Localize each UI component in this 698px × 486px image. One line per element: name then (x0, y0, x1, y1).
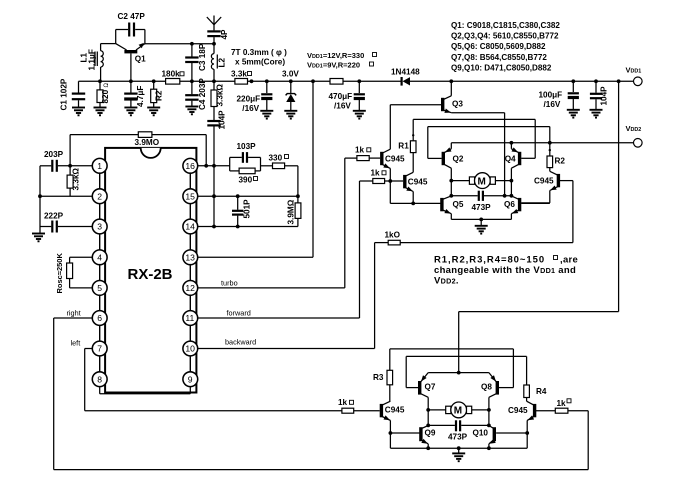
svg-text:1k: 1k (557, 399, 567, 408)
svg-text:1kO: 1kO (385, 231, 401, 240)
transistor Q1 (116, 43, 146, 81)
svg-text:L2: L2 (218, 57, 227, 67)
svg-text:3: 3 (97, 222, 102, 232)
capacitor 104P (under 3.3k) (207, 110, 226, 227)
resistor R3 (373, 370, 393, 401)
svg-text:Q1: Q1 (135, 55, 146, 64)
svg-text:501P: 501P (243, 199, 252, 219)
transistor Q9 (389, 426, 436, 449)
wire: Q3 emitter feed down centre of bridge (451, 112, 504, 114)
ground below 470uF (353, 111, 366, 119)
svg-text:R1,R2,R3,R4=80~150: R1,R2,R3,R4=80~150 (434, 255, 545, 266)
wire pin11 forward (198, 181, 360, 318)
transistor Q2 (443, 143, 464, 196)
capacitor 470uF/16V (329, 79, 365, 110)
wire: R1 top cross-couple to Q4 base (413, 118, 535, 120)
ground (lower bridge) (452, 453, 465, 461)
capacitor 104P (VDD1) (590, 79, 609, 109)
wire: VDD1 rail from diode to terminal (410, 80, 634, 82)
motor M (upper) (449, 173, 513, 189)
junction to pin13 drop (311, 79, 315, 83)
svg-text:103P: 103P (237, 142, 257, 151)
svg-text:Rosc≈250K: Rosc≈250K (55, 253, 64, 294)
svg-text:M: M (454, 406, 462, 417)
svg-text:R4: R4 (536, 387, 547, 396)
svg-text:1N4148: 1N4148 (391, 68, 420, 77)
capacitor 501P (pin15-pin14) (232, 196, 252, 226)
svg-text:x 5mm(Core): x 5mm(Core) (235, 58, 285, 67)
transistor C945 (first driver) (382, 105, 405, 204)
svg-text:C3 18P: C3 18P (198, 43, 207, 71)
svg-text:Ω: Ω (104, 83, 110, 88)
resistor 3.3k (pin1-pin2) (67, 164, 80, 196)
transistor Q5 (390, 196, 464, 220)
resistor 3.9M (pin15-pin14) (287, 199, 301, 226)
ground below 820 (94, 108, 107, 116)
wire: Q1 emitter to antenna node y=43.8 (145, 43, 214, 45)
svg-text:C945: C945 (385, 154, 405, 163)
svg-text:Q3: Q3 (452, 99, 463, 108)
svg-text:180k: 180k (162, 70, 181, 79)
inductor L2 (211, 44, 226, 82)
wire pin8 to pin9 (100, 387, 191, 394)
svg-text:Q10: Q10 (473, 429, 489, 438)
motor M (lower) (426, 402, 490, 418)
svg-text:222P: 222P (44, 212, 64, 221)
capacitor 100uF/16V (539, 79, 579, 109)
svg-text:11: 11 (185, 313, 194, 323)
transistor C945 (right driver) (521, 168, 573, 243)
svg-text:right: right (67, 309, 81, 318)
zener diode 3.0V (286, 79, 297, 110)
svg-text:/16V: /16V (334, 102, 351, 111)
wire: main left bias rail y=81.3 from C1 to 180k (79, 80, 166, 82)
svg-text:left: left (71, 339, 81, 348)
resistor 1kO (backward drive) (375, 231, 573, 245)
wire pin2 (40, 195, 92, 197)
svg-text:473P: 473P (472, 203, 492, 212)
svg-text:Q7,Q8: B564,C8550,B772: Q7,Q8: B564,C8550,B772 (451, 53, 547, 62)
svg-text:C945: C945 (408, 177, 428, 186)
svg-text:RX-2B: RX-2B (128, 266, 173, 283)
resistor Rosc 250K (pin4-pin5) (55, 253, 92, 294)
wire: cross-couple line Q7 base / R4 (406, 356, 526, 387)
svg-text:1.1μF: 1.1μF (88, 49, 97, 70)
ground below 104P (590, 110, 603, 118)
svg-text:15: 15 (185, 191, 195, 201)
wire pin16 (198, 165, 230, 167)
svg-text:Q9: Q9 (425, 429, 436, 438)
ground (upper bridge) (475, 226, 488, 234)
wire: lower bridge emitter rail (428, 372, 489, 374)
inductor L1 1.1uF (80, 44, 116, 82)
svg-text:104P: 104P (600, 86, 609, 106)
wire 330 down to pin15 (297, 166, 299, 203)
svg-text:14: 14 (185, 222, 195, 232)
svg-text:16: 16 (185, 161, 195, 171)
label VDD1=12V,R=330 (307, 51, 377, 70)
svg-text:470μF: 470μF (329, 92, 353, 101)
ground below 220uF (260, 111, 273, 119)
wire pin13 to 3.0V drop (198, 256, 313, 258)
resistor R2 (bridge) (547, 156, 565, 168)
wire: rail from 180k to 3.3k (180, 80, 235, 82)
resistor R (series, unlabeled) (330, 79, 343, 85)
svg-text:Q4: Q4 (505, 155, 516, 164)
svg-text:3.3kΩ: 3.3kΩ (216, 84, 225, 107)
svg-text:Q7: Q7 (425, 382, 436, 391)
svg-text:C945: C945 (385, 405, 405, 414)
transistor Q7 (419, 373, 436, 426)
svg-text:1k: 1k (371, 168, 381, 177)
pin circles right 16-9 (183, 158, 198, 386)
ground below R2 (147, 108, 160, 116)
svg-text:R2: R2 (555, 157, 566, 166)
resistor 1k (right drive) (535, 399, 588, 413)
junction rail/C4 (190, 79, 194, 83)
transistor Q8 (481, 373, 498, 426)
diode 1N4148 (391, 68, 420, 86)
capacitor 4.7uF (124, 79, 145, 107)
svg-text:12: 12 (185, 283, 195, 293)
resistor 3.3k (series in rail) (231, 70, 252, 85)
capacitor 473P (upper, across motor) (449, 191, 513, 213)
svg-text:7T 0.3mm ( φ ): 7T 0.3mm ( φ ) (231, 48, 287, 57)
antenna (207, 16, 221, 31)
svg-text:turbo: turbo (221, 279, 238, 288)
svg-text:104P: 104P (218, 110, 227, 130)
svg-text:4.7μF: 4.7μF (136, 86, 145, 107)
svg-text:473P: 473P (448, 433, 468, 442)
resistor 330 (261, 154, 298, 169)
svg-text:,are: ,are (560, 255, 578, 266)
svg-text:C945: C945 (508, 406, 528, 415)
ground below node column (39, 227, 41, 234)
svg-text:4: 4 (97, 253, 102, 263)
resistor R4 (524, 385, 547, 401)
wire: feed from VDD1 right drop (459, 311, 619, 313)
svg-text:3.0V: 3.0V (282, 70, 299, 79)
svg-text:203P: 203P (44, 150, 64, 159)
transistor C945 (lower-left driver) (381, 401, 404, 448)
svg-text:820: 820 (101, 89, 110, 103)
pin rail lines inside IC (99, 158, 101, 387)
ground below zener (284, 111, 297, 119)
svg-text:10: 10 (185, 344, 195, 354)
svg-text:330: 330 (269, 154, 283, 163)
transistor C945 (lower-right driver) (508, 401, 535, 448)
node VDD2 rail (451, 124, 642, 147)
capacitor 4P (207, 29, 229, 44)
transistor C945 (second driver) (405, 153, 428, 204)
svg-text:8: 8 (97, 374, 102, 384)
capacitor 473P (lower) (426, 420, 490, 441)
wire pin7 left (route to 1k of lower bridge left) (71, 339, 342, 411)
wire pin10 backward (198, 243, 375, 349)
svg-text:C2 47P: C2 47P (118, 12, 146, 21)
svg-text:13: 13 (185, 253, 195, 263)
transistor list note (451, 21, 560, 72)
wire: vertical 3.0V rail to pin 13 (312, 81, 314, 257)
wire pin15 (198, 195, 298, 197)
transistor Q4 (505, 143, 520, 196)
svg-text:VDD2.: VDD2. (434, 276, 459, 287)
svg-text:C1 102P: C1 102P (60, 78, 69, 110)
svg-text:3.3kΩ: 3.3kΩ (72, 168, 81, 191)
svg-text:Q2,Q3,Q4: 5610,C8550,B772: Q2,Q3,Q4: 5610,C8550,B772 (451, 32, 559, 41)
capacitor C1 102P (60, 78, 86, 110)
capacitor C3 18P (185, 43, 207, 94)
resistor 820ohm (97, 79, 110, 107)
svg-text:1k: 1k (355, 146, 365, 155)
capacitor 220uF/16V (237, 79, 273, 113)
wire pin12 turbo (198, 158, 345, 288)
svg-text:390: 390 (239, 176, 253, 185)
svg-text:backward: backward (225, 338, 256, 347)
wire: rail 3.3k to diode (248, 80, 401, 82)
capacitor 203P (series pin1) (40, 150, 92, 172)
svg-text:forward: forward (227, 309, 251, 318)
svg-text:3.9MO: 3.9MO (135, 138, 160, 147)
wire pin6 right (long route to 1k of lower bridge right) (54, 309, 589, 470)
resistor 180k (162, 70, 185, 85)
transistor Q6 (504, 196, 550, 220)
svg-text:/16V: /16V (242, 104, 259, 113)
wire: bridge emitter rail to ground (451, 218, 511, 226)
capacitor C4 203P (185, 78, 207, 110)
capacitor 103P / resistor 390 parallel network (230, 142, 261, 185)
ground below C1 (72, 108, 85, 116)
resistor 1k (forward drive) (360, 168, 404, 183)
wire: lower bridge bottom rail to ground (390, 446, 527, 453)
capacitor 222P (series pin3) (40, 212, 92, 233)
transistor Q3 (390, 79, 463, 114)
wire pin14 (198, 226, 298, 228)
svg-text:Q1: C9018,C1815,C380,C382: Q1: C9018,C1815,C380,C382 (451, 21, 560, 30)
svg-text:1: 1 (97, 161, 102, 171)
svg-text:7: 7 (97, 344, 102, 354)
svg-text:/16V: /16V (544, 100, 561, 109)
svg-text:Q5: Q5 (453, 200, 464, 209)
capacitor C2 47P (116, 12, 146, 44)
svg-text:220μF: 220μF (237, 95, 261, 104)
svg-text:5: 5 (97, 283, 102, 293)
svg-text:Q9,Q10: D471,C8050,D882: Q9,Q10: D471,C8050,D882 (451, 63, 552, 72)
svg-text:100μF: 100μF (539, 91, 563, 100)
ground below C4 (185, 107, 198, 115)
node VDD1 terminal (617, 66, 642, 86)
svg-text:1k: 1k (338, 398, 348, 407)
svg-text:4P: 4P (220, 29, 229, 40)
resistor R1 (398, 119, 416, 152)
ground below 100uF (567, 110, 580, 118)
svg-text:Q8: Q8 (481, 382, 492, 391)
wire: Q2 base cross-couple to R2 (428, 157, 442, 159)
wire: right drop from VDD1 rail to lower bridge feed (618, 81, 620, 311)
svg-text:R2: R2 (155, 90, 164, 101)
pin circles left 1-8 (92, 158, 107, 386)
resistor 3.9MO (pin1 to pin16 top) (70, 132, 206, 166)
wire: cross-couple line R3 / Q8 base (390, 349, 514, 388)
junction rail/L2/3.3k vertical (212, 79, 216, 83)
svg-text:C4 203P: C4 203P (198, 78, 207, 110)
node column x=40 (39, 166, 41, 227)
svg-text:R1: R1 (398, 142, 409, 151)
svg-text:3.3k: 3.3k (231, 70, 247, 79)
svg-text:M: M (478, 176, 486, 187)
svg-text:Q5,Q6: C8050,5609,D882: Q5,Q6: C8050,5609,D882 (451, 42, 546, 51)
svg-text:changeable with the VDD1 and: changeable with the VDD1 and (434, 265, 576, 276)
svg-text:3.9MΩ: 3.9MΩ (287, 199, 296, 224)
resistor R2 (bias) (151, 79, 164, 107)
svg-text:Q2: Q2 (453, 155, 464, 164)
resistor 3.3k (vertical) (211, 81, 225, 120)
svg-text:6: 6 (97, 313, 102, 323)
op-amp U1 RX-2B body (105, 148, 196, 393)
svg-text:9: 9 (188, 374, 193, 384)
ground below 4.7uF (124, 108, 137, 116)
svg-text:Q6: Q6 (504, 200, 515, 209)
svg-text:C945: C945 (534, 176, 554, 185)
resistor 1k (turbo drive) (345, 146, 380, 161)
resistor 1k (left drive) (338, 398, 380, 413)
svg-text:2: 2 (97, 191, 102, 201)
transistor Q10 (473, 426, 528, 449)
note R1..R4 changeable (434, 255, 578, 287)
svg-text:R3: R3 (373, 373, 384, 382)
